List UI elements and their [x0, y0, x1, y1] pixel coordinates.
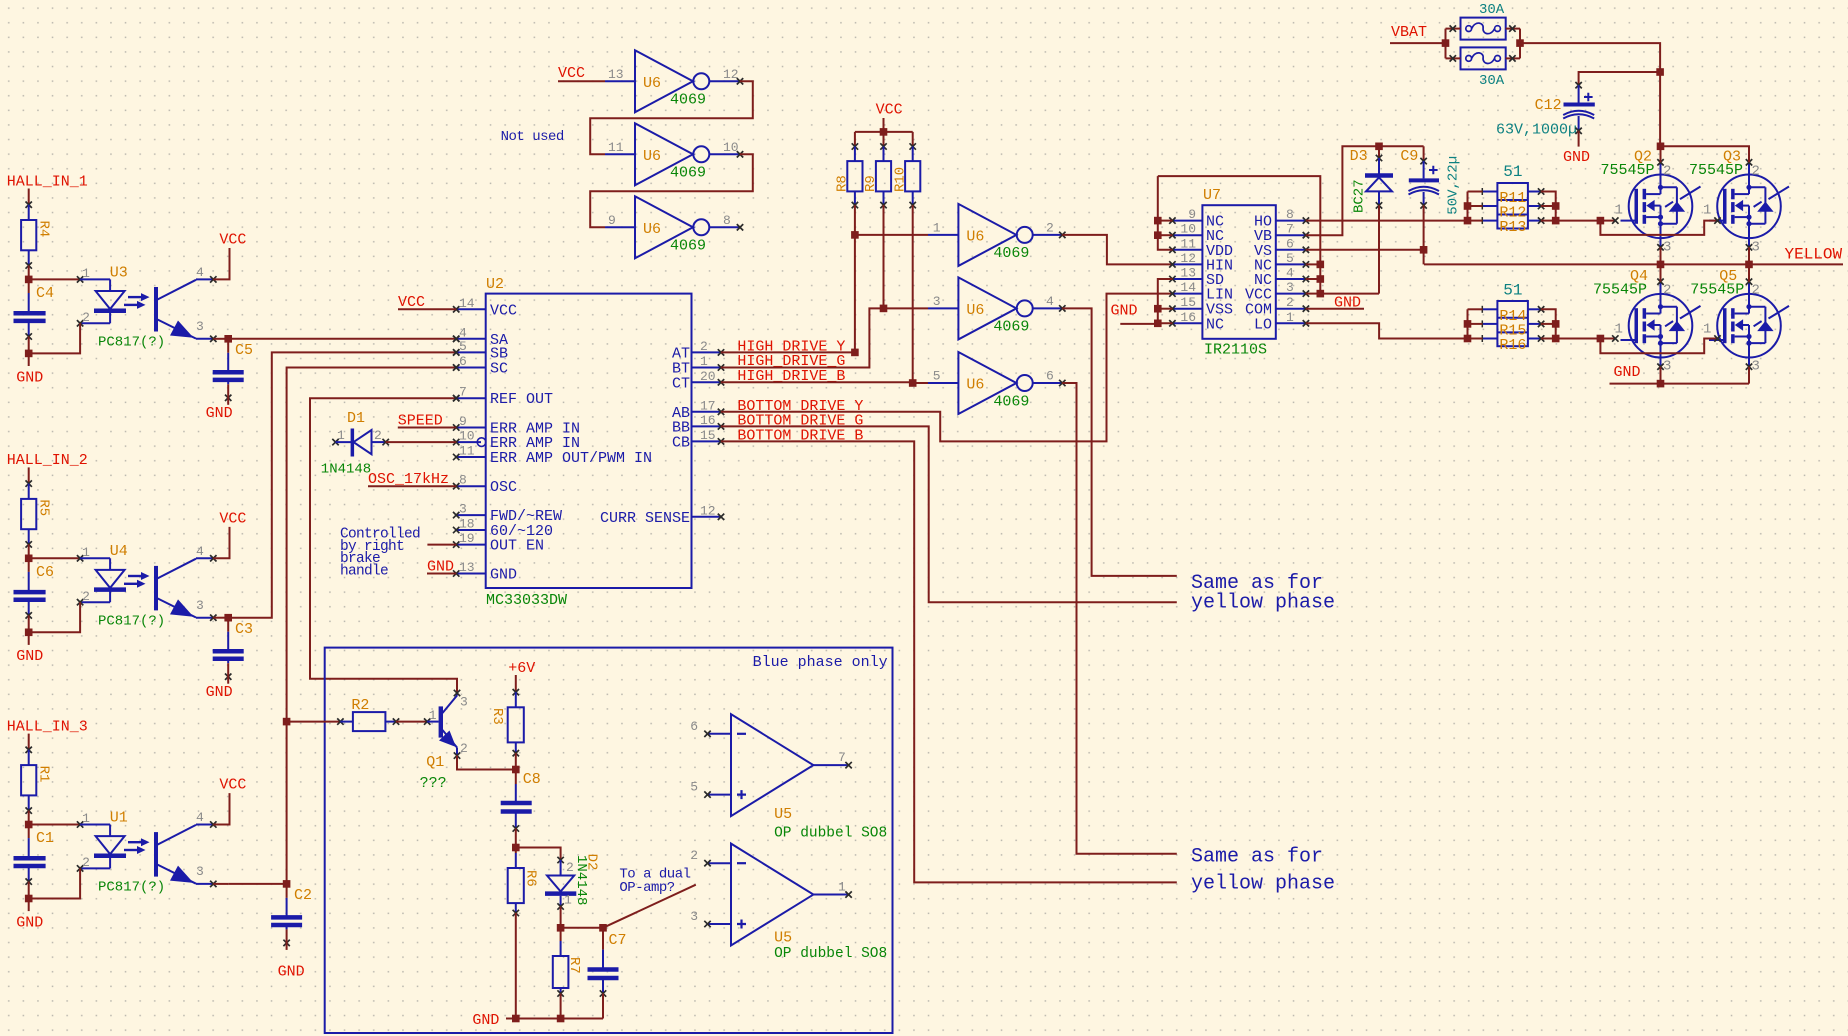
wire Q4 gate jog to Q5 gate	[1600, 339, 1717, 354]
wire right rail	[1541, 192, 1556, 221]
wire inverter pin6 down to yellow-phase note	[1062, 383, 1177, 854]
svg-text:1N4148: 1N4148	[573, 855, 589, 905]
U7 pin 8 HO	[1276, 220, 1306, 222]
opto transistor	[154, 287, 158, 332]
junction opto U1 pin3 / C2	[283, 880, 291, 888]
wire U7 VB to D3/C9 top	[1306, 146, 1424, 235]
svg-text:U6: U6	[643, 148, 661, 165]
junction U7 pin16	[1154, 320, 1162, 328]
svg-text:R5: R5	[36, 499, 52, 516]
svg-text:1: 1	[838, 880, 846, 895]
svg-text:VCC: VCC	[876, 102, 903, 119]
svg-text:8: 8	[723, 213, 731, 228]
U2 pin 2 AT	[692, 351, 722, 353]
svg-text:2: 2	[700, 339, 708, 354]
junction left rail mid	[1464, 202, 1472, 210]
wire hall1 to U2 SA	[228, 338, 456, 340]
svg-text:19: 19	[459, 531, 475, 546]
wire fuses to Q2/Q3 supply	[1520, 43, 1660, 146]
junction right rail mid	[1552, 320, 1560, 328]
U2 pin 4 SA	[456, 338, 486, 340]
svg-text:Q1: Q1	[426, 754, 444, 771]
wire VCC to opto pin4	[213, 248, 229, 279]
svg-text:30A: 30A	[1479, 73, 1505, 89]
wire R10 node to inverter pin5	[913, 382, 928, 384]
wire VS to yellow rail	[1423, 250, 1425, 265]
svg-text:U1: U1	[110, 809, 128, 826]
svg-text:50V,22µ: 50V,22µ	[1446, 156, 1462, 215]
wire D1 to U2 pin10	[386, 441, 457, 443]
svg-text:OSC: OSC	[490, 479, 517, 496]
svg-text:C9: C9	[1400, 148, 1418, 165]
svg-text:U6: U6	[966, 302, 984, 319]
U7 pin 3 VCC	[1276, 293, 1306, 295]
wire opto pin2 return	[29, 868, 80, 898]
resistor R4	[21, 220, 36, 250]
svg-text:Not used: Not used	[501, 129, 564, 145]
svg-text:3: 3	[690, 909, 698, 924]
svg-text:3: 3	[1752, 239, 1760, 255]
junction R3/Q1/C8	[512, 766, 520, 774]
svg-text:C4: C4	[36, 285, 54, 302]
svg-text:CURR SENSE: CURR SENSE	[600, 510, 690, 527]
U2 pin 15 CB	[692, 440, 722, 442]
svg-text:15: 15	[1180, 295, 1196, 310]
svg-text:1N4148: 1N4148	[321, 462, 371, 478]
svg-text:2: 2	[1663, 283, 1671, 299]
svg-text:5: 5	[459, 339, 467, 354]
wire VCC to opto pin4	[213, 527, 229, 558]
svg-text:HALL_IN_2: HALL_IN_2	[7, 452, 88, 469]
svg-text:U5: U5	[774, 806, 792, 823]
svg-text:R6: R6	[523, 870, 539, 887]
svg-text:12: 12	[1180, 251, 1196, 266]
svg-text:R9: R9	[863, 175, 879, 192]
U2 pin 7 REF OUT	[456, 397, 486, 399]
junction U7 pin10	[1154, 231, 1162, 239]
junction U7 pin3	[1317, 290, 1325, 298]
wire Q4 source to GND rail	[1660, 367, 1662, 384]
svg-text:2: 2	[690, 848, 698, 863]
wire C1 to GND node	[28, 882, 30, 899]
svg-text:3: 3	[1663, 239, 1671, 255]
U2 pin 14 VCC	[456, 308, 486, 310]
inverter U6 (13-12) 4069	[635, 50, 693, 112]
svg-text:Same as for: Same as for	[1191, 846, 1323, 869]
junction D2/R7	[557, 924, 565, 932]
svg-text:R8: R8	[835, 175, 851, 192]
svg-text:2: 2	[1663, 163, 1671, 179]
wire R8 to HIGH_DRIVE_Y riser	[721, 205, 855, 352]
svg-text:C7: C7	[609, 932, 627, 949]
U7 pin 15 VSS	[1172, 308, 1202, 310]
svg-text:U7: U7	[1203, 187, 1221, 204]
svg-text:2: 2	[82, 589, 90, 604]
wire fuse pins	[1446, 28, 1461, 30]
inverter U6 (5-6) 4069	[958, 352, 1016, 414]
junction opto U4 pin3 / C3	[224, 614, 232, 622]
svg-text:GND: GND	[16, 914, 43, 931]
wire node to opto U4 pin1	[29, 557, 80, 559]
wire right rail	[1541, 309, 1556, 338]
wire VCC to opto pin4	[213, 793, 229, 824]
wire R2 to Q1 base	[396, 721, 427, 723]
junction Q2 gate	[1597, 217, 1605, 225]
wire SC node to R2	[287, 721, 341, 723]
wire HIGH_DRIVE_B to R10	[721, 381, 913, 383]
svg-text:7: 7	[459, 385, 467, 400]
svg-text:4: 4	[1046, 294, 1054, 309]
junction GND/R6	[512, 1015, 520, 1023]
wire Q2 source to yellow rail	[1660, 247, 1662, 264]
junction left rail bottom	[1464, 217, 1472, 225]
svg-text:U6: U6	[966, 377, 984, 394]
wire YELLOW rail	[1424, 263, 1843, 265]
svg-text:75545P: 75545P	[1593, 282, 1647, 299]
svg-text:8: 8	[459, 473, 467, 488]
U7 pin 5 NC	[1276, 263, 1306, 265]
U7 pin 13 SD	[1172, 278, 1202, 280]
svg-text:VCC: VCC	[490, 302, 517, 319]
wire opto pin3 to junction	[213, 617, 228, 619]
svg-text:2: 2	[1046, 220, 1054, 235]
svg-text:GND: GND	[1111, 303, 1138, 320]
junction left rail mid	[1464, 320, 1472, 328]
svg-text:YELLOW: YELLOW	[1785, 246, 1843, 264]
wire VCC to pin 13	[558, 80, 605, 82]
junction fuse left	[1442, 39, 1450, 47]
wire fuse left rail	[1445, 29, 1447, 59]
U2 pin 3 FWD/~REW	[456, 514, 486, 516]
U2 pin 9 ERR AMP IN	[456, 427, 486, 429]
wire OUT EN stub	[427, 544, 456, 546]
svg-text:15: 15	[700, 428, 716, 443]
wire GND rail in box	[506, 1018, 603, 1020]
svg-text:3: 3	[196, 598, 204, 613]
U7 pin 6 VS	[1276, 249, 1306, 251]
U7 pin 10 NC	[1172, 234, 1202, 236]
svg-text:20: 20	[700, 369, 716, 384]
svg-text:13: 13	[608, 67, 624, 82]
svg-text:12: 12	[723, 67, 739, 82]
svg-text:U4: U4	[110, 543, 128, 560]
U7 pin 11 VDD	[1172, 249, 1202, 251]
svg-text:2: 2	[1752, 163, 1760, 179]
svg-text:17: 17	[700, 398, 716, 413]
svg-text:GND: GND	[490, 567, 517, 584]
svg-text:5: 5	[933, 369, 941, 384]
U2 pin 18 60/~120	[456, 529, 486, 531]
junction C7 node	[599, 924, 607, 932]
svg-text:13: 13	[1180, 266, 1196, 281]
svg-text:C8: C8	[523, 771, 541, 788]
junction R10/HDB/inverter	[909, 379, 917, 387]
IC U7 IR2110S body	[1202, 205, 1275, 339]
junction Q2 source	[1657, 261, 1665, 269]
wire R3 to C8 node	[515, 753, 517, 769]
U7 pin 2 COM	[1276, 308, 1306, 310]
svg-text:4: 4	[196, 810, 204, 825]
svg-text:C12: C12	[1535, 97, 1562, 114]
U7 pin 16 NC	[1172, 322, 1202, 324]
wire VCC rail	[883, 118, 885, 132]
junction opto U3 pin3 / C5	[224, 335, 232, 343]
svg-text:3: 3	[196, 319, 204, 334]
wire R8 node to inverter pin1	[855, 234, 928, 236]
box Blue phase only	[325, 648, 893, 1033]
U2 pin 17 AB	[692, 411, 722, 413]
svg-text:C2: C2	[294, 887, 312, 904]
junction fuse right	[1516, 39, 1524, 47]
svg-text:2: 2	[1752, 283, 1760, 299]
U2 pin 20 CT	[692, 381, 722, 383]
junction right rail mid	[1552, 202, 1560, 210]
inverter U6 (3-4) 4069	[958, 277, 1016, 339]
svg-text:R16: R16	[1499, 337, 1526, 354]
svg-text:VCC: VCC	[219, 777, 246, 794]
svg-text:U3: U3	[110, 264, 128, 281]
svg-text:11: 11	[608, 140, 624, 155]
svg-text:2: 2	[566, 860, 574, 875]
junction U7 pin4	[1317, 275, 1325, 283]
svg-text:GND: GND	[206, 684, 233, 701]
junction U7 VSS	[1154, 305, 1162, 313]
junction left rail bottom	[1464, 335, 1472, 343]
wire R9 riser	[883, 205, 885, 308]
svg-text:2: 2	[374, 428, 382, 443]
svg-text:U6: U6	[643, 221, 661, 238]
junction supply/C12	[1656, 68, 1664, 76]
svg-text:8: 8	[1286, 207, 1294, 222]
svg-text:GND: GND	[206, 405, 233, 422]
wire U7 VS to C9/yellow rail	[1306, 249, 1424, 251]
inverter U6 (9-8) 4069	[635, 196, 693, 258]
wire to dual op-amp (diagonal)	[603, 885, 696, 928]
svg-text:U6: U6	[966, 228, 984, 245]
fuse F1 30A	[1461, 18, 1506, 40]
junction Q4 source	[1657, 380, 1665, 388]
resistor R1	[21, 765, 36, 795]
svg-text:???: ???	[420, 775, 447, 792]
svg-text:yellow phase: yellow phase	[1191, 873, 1335, 896]
svg-text:11: 11	[1180, 236, 1196, 251]
U2 pin 13 GND	[456, 573, 486, 575]
wire Q1 emitter to C8 node	[457, 756, 516, 770]
svg-text:3: 3	[196, 864, 204, 879]
resistor R10	[912, 132, 914, 147]
resistor R9	[883, 132, 885, 147]
svg-text:3: 3	[1286, 280, 1294, 295]
svg-text:51: 51	[1503, 282, 1522, 300]
wire U6 pin10 to pin9 loop	[590, 154, 753, 227]
wire fuse right rail	[1519, 29, 1521, 59]
U7 pin 4 NC	[1276, 278, 1306, 280]
svg-text:U2: U2	[486, 276, 504, 293]
U7 pin 9 NC	[1172, 220, 1202, 222]
svg-text:4069: 4069	[670, 165, 706, 182]
wire +6V to R3	[515, 675, 517, 692]
svg-text:10: 10	[1180, 222, 1196, 237]
svg-text:1: 1	[564, 893, 572, 908]
svg-text:GND: GND	[1334, 295, 1361, 312]
svg-text:3: 3	[1663, 359, 1671, 375]
svg-text:ERR AMP OUT/PWM IN: ERR AMP OUT/PWM IN	[490, 450, 652, 467]
svg-text:2: 2	[82, 855, 90, 870]
svg-text:9: 9	[608, 213, 616, 228]
opto transistor	[154, 832, 158, 877]
wire U7 pins 9-11 tie	[1158, 176, 1173, 250]
U7 pin 1 LO	[1276, 322, 1306, 324]
wire R4 to node	[28, 266, 30, 280]
wire D3 anode to VCC net	[1378, 205, 1380, 293]
svg-text:1: 1	[1615, 202, 1623, 218]
svg-text:OP dubbel SO8: OP dubbel SO8	[774, 946, 887, 962]
svg-text:GND: GND	[16, 369, 43, 386]
svg-text:14: 14	[459, 296, 475, 311]
svg-text:C6: C6	[36, 564, 54, 581]
svg-text:4069: 4069	[670, 92, 706, 109]
wire VBAT to fuses	[1390, 42, 1446, 44]
svg-text:VCC: VCC	[219, 510, 246, 527]
resistor R8	[854, 132, 856, 147]
wire C7 to GND rail	[602, 994, 604, 1019]
U7 pin 12 HIN	[1172, 263, 1202, 265]
svg-text:VCC: VCC	[219, 231, 246, 248]
svg-text:VBAT: VBAT	[1391, 24, 1427, 41]
wire U7 LO to R14 block	[1306, 323, 1467, 338]
wire Q3 source to yellow rail	[1748, 247, 1750, 264]
svg-text:C1: C1	[36, 830, 54, 847]
junction right rail bottom	[1552, 335, 1560, 343]
fuse F2 30A	[1461, 47, 1506, 69]
svg-text:7: 7	[1286, 222, 1294, 237]
svg-text:REF OUT: REF OUT	[490, 391, 553, 408]
junction Q3 source	[1745, 261, 1753, 269]
svg-text:R13: R13	[1499, 219, 1526, 236]
junction GND node	[25, 350, 33, 358]
wire C12 to GND	[1578, 131, 1580, 147]
op-amp U5 (pins 6,5,7) OP dubbel SO8	[731, 714, 813, 816]
wire HALL_IN_1 to R4	[28, 189, 30, 205]
svg-text:75545P: 75545P	[1689, 162, 1743, 179]
wire opto pin2 return	[29, 323, 80, 353]
svg-text:1: 1	[700, 354, 708, 369]
wire U7 HO to R11 block	[1306, 220, 1468, 222]
svg-text:BC27: BC27	[1352, 179, 1368, 213]
svg-text:1: 1	[1703, 202, 1711, 218]
svg-text:CT: CT	[672, 375, 690, 392]
svg-text:4: 4	[1286, 266, 1294, 281]
svg-text:16: 16	[700, 413, 716, 428]
svg-text:1: 1	[1615, 322, 1623, 338]
svg-text:1: 1	[933, 220, 941, 235]
svg-text:R3: R3	[489, 708, 505, 725]
svg-text:C3: C3	[235, 621, 253, 638]
wire node to C7 node	[561, 927, 603, 929]
svg-text:3: 3	[1752, 359, 1760, 375]
U2 pin 10 ERR AMP IN	[456, 441, 481, 443]
svg-text:51: 51	[1503, 163, 1522, 181]
svg-text:C5: C5	[235, 342, 253, 359]
svg-text:5: 5	[1286, 251, 1294, 266]
svg-text:PC817(?): PC817(?)	[98, 335, 165, 351]
svg-text:VCC: VCC	[558, 65, 585, 82]
svg-text:LO: LO	[1254, 316, 1272, 333]
wire U6 pin12 to pin11 loop	[590, 81, 753, 154]
svg-text:PC817(?): PC817(?)	[98, 880, 165, 896]
junction GND node	[25, 895, 33, 903]
wire Q5 drain	[1748, 264, 1750, 281]
wire inverter pin2 to U7 HIN	[1062, 235, 1172, 265]
svg-text:6: 6	[1046, 369, 1054, 384]
svg-text:HALL_IN_3: HALL_IN_3	[7, 718, 88, 735]
svg-text:Blue phase only: Blue phase only	[753, 654, 888, 671]
svg-text:GND: GND	[1614, 364, 1641, 381]
svg-text:7: 7	[838, 750, 846, 765]
svg-text:3: 3	[460, 695, 468, 710]
U2 pin 12 CURR SENSE	[692, 516, 722, 518]
wire C4 to GND node	[28, 337, 30, 354]
svg-text:U5: U5	[774, 930, 792, 947]
svg-text:OUT EN: OUT EN	[490, 538, 544, 555]
svg-text:GND: GND	[278, 964, 305, 981]
svg-text:11: 11	[459, 444, 475, 459]
wire BOTTOM_DRIVE_G to yellow-phase note	[721, 426, 1177, 602]
junction VS/C9	[1420, 246, 1428, 254]
svg-text:6: 6	[459, 354, 467, 369]
opto transistor	[154, 566, 158, 611]
svg-text:1: 1	[1703, 322, 1711, 338]
junction R8/inverter input	[851, 231, 859, 239]
wire U7 VCC to D3	[1320, 293, 1379, 295]
svg-text:MC33033DW: MC33033DW	[486, 592, 567, 609]
wire inverter pin4 down to yellow-phase note	[1062, 308, 1177, 576]
svg-text:4069: 4069	[993, 319, 1029, 336]
wire R1 to node	[28, 811, 30, 825]
U2 pin 11 ERR AMP OUT/PWM IN	[456, 456, 486, 458]
svg-text:30A: 30A	[1479, 2, 1505, 18]
svg-text:18: 18	[459, 517, 475, 532]
wire node to D2	[516, 848, 561, 861]
wire BOTTOM_DRIVE_B to yellow-phase note	[721, 441, 1177, 882]
svg-text:2: 2	[82, 310, 90, 325]
svg-text:2: 2	[460, 741, 468, 756]
svg-text:3: 3	[933, 294, 941, 309]
wire R5 to node	[28, 544, 30, 558]
resistor R5	[21, 499, 36, 529]
svg-text:6: 6	[1286, 236, 1294, 251]
wire hall3 / SC / R2 riser	[286, 722, 288, 884]
IC U2 MC33033DW body	[486, 294, 692, 588]
junction U7 pin5	[1317, 261, 1325, 269]
wire opto pin3 to junction	[213, 338, 228, 340]
wire C6 to GND node	[28, 615, 30, 632]
wire D2 to R7 node	[560, 907, 562, 928]
svg-text:handle: handle	[340, 563, 388, 579]
junction D3 top	[1375, 143, 1383, 151]
svg-text:R10: R10	[892, 167, 908, 192]
junction Q4 gate	[1597, 335, 1605, 343]
U7 pin 14 LIN	[1172, 293, 1202, 295]
svg-text:+6V: +6V	[508, 660, 535, 677]
wire U7 SD tie to VSS/NC	[1158, 279, 1173, 323]
svg-text:10: 10	[723, 140, 739, 155]
wire HIGH_DRIVE_G to R9	[721, 308, 884, 367]
U2 pin 6 SC	[456, 367, 486, 369]
wire C8 to R6/D2 node	[515, 829, 517, 848]
wire node to opto U3 pin1	[29, 278, 80, 280]
opto arrows	[128, 296, 144, 298]
